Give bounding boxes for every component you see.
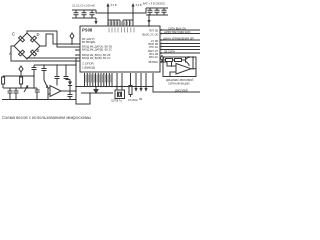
svg-text:Схема весов с использованием м: Схема весов с использованием микросхемы	[2, 115, 91, 120]
diode D1	[24, 86, 28, 93]
transistor Q3	[186, 57, 190, 65]
svg-text:ВХ ВХОДЫ: ВХ ВХОДЫ	[82, 40, 96, 44]
bus junction dots	[84, 86, 147, 87]
crystal leads	[117, 73, 122, 90]
capacitor C10 on x57	[55, 65, 60, 86]
wire bridge bottom vertex to IC pin	[27, 58, 80, 59]
resistor R5	[166, 59, 173, 62]
svg-text:32768 Гц: 32768 Гц	[111, 99, 122, 103]
node on wire y44	[71, 43, 73, 45]
strain gauge R-B	[31, 50, 37, 56]
op-amp output	[61, 90, 76, 92]
diode D2	[69, 80, 71, 82]
right output wire 3	[161, 39, 200, 41]
capacitor C3	[90, 10, 95, 18]
op-amp U3	[50, 86, 61, 97]
IC U1 body	[80, 26, 160, 72]
svg-text:ВХ2 2С: ВХ2 2С	[149, 55, 158, 59]
svg-text:ШИНА УПРАВЛЕНИЯ SPI: ШИНА УПРАВЛЕНИЯ SPI	[163, 36, 194, 40]
display wire	[153, 73, 200, 92]
right output wire 4	[161, 43, 200, 45]
svg-text:PS08: PS08	[82, 28, 93, 33]
op-amp U2	[176, 64, 191, 75]
ground bus upper	[76, 86, 153, 88]
svg-text:B: B	[37, 48, 40, 53]
top pin bus 1	[108, 20, 120, 26]
bottom pin names	[86, 75, 112, 83]
ground arrow	[95, 87, 97, 90]
capacitor C11 on x66	[64, 65, 71, 80]
net arrow pin 3	[140, 73, 142, 88]
net arrow pin 2	[135, 73, 137, 88]
svg-text:C: C	[12, 32, 15, 37]
net flag diamond 2	[19, 66, 23, 76]
op-amp inputs	[48, 88, 50, 100]
svg-text:ЦИФР ВЫХОДЫ ЖКИ: ЦИФР ВЫХОДЫ ЖКИ	[164, 30, 191, 34]
svg-text:С1,С2,С3 х 100 нФ: С1,С2,С3 х 100 нФ	[72, 4, 95, 8]
svg-text:С (ОПОР): С (ОПОР)	[82, 62, 94, 66]
ground jog to bus	[76, 93, 90, 104]
collector feedback line	[189, 57, 193, 69]
svg-text:3,3 В: 3,3 В	[136, 3, 142, 7]
capacitor bank rails	[72, 10, 96, 18]
net arrow on wire	[160, 56, 164, 63]
svg-text:10 МОм: 10 МОм	[128, 98, 138, 102]
power arrow VDD1	[107, 6, 109, 20]
svg-text:3,3 В: 3,3 В	[111, 3, 117, 7]
wire cap bank to supply line	[96, 10, 133, 13]
battery cap rails	[146, 8, 168, 15]
battery minus to IC top	[148, 15, 150, 26]
capacitor C5	[155, 8, 160, 15]
net flag diamond near IC	[70, 33, 74, 44]
wire y88	[3, 87, 37, 89]
top pin numbers	[109, 22, 132, 25]
capacitor C4	[148, 8, 153, 15]
capacitor C7	[8, 88, 13, 100]
emitter wire	[188, 65, 190, 67]
svg-text:СИГНАЛИЗАЦИИ: СИГНАЛИЗАЦИИ	[168, 82, 189, 86]
svg-text:ДИНАМИК ЗВУКОВОЙ: ДИНАМИК ЗВУКОВОЙ	[166, 78, 193, 82]
right output wire 1	[161, 29, 200, 31]
left rail low	[3, 75, 34, 77]
right output wire 7	[161, 52, 200, 54]
svg-text:ПИТ 2В: ПИТ 2В	[149, 29, 158, 33]
wire bridge top vertex to IC pin	[27, 31, 80, 47]
strain gauge R-D	[31, 36, 37, 42]
ground bus lower	[81, 92, 113, 94]
strain gauge R-C	[19, 36, 25, 42]
resistor R7	[175, 59, 182, 62]
wire bridge right vertex to IC pin	[40, 34, 80, 46]
cap on x34 drop	[32, 65, 37, 88]
resistor R2	[20, 77, 23, 84]
buzzer driver box	[163, 57, 196, 77]
net arrow pin 4	[145, 73, 147, 88]
capacitor C6	[162, 8, 167, 15]
svg-text:ЗВ ВЫХ: ЗВ ВЫХ	[148, 60, 158, 64]
capacitor C2	[82, 10, 87, 18]
right output wire 6	[161, 49, 200, 51]
svg-text:1 (ВЫВОД): 1 (ВЫВОД)	[82, 66, 95, 70]
IC bottom pin stubs	[85, 73, 113, 87]
right output wire 2	[161, 33, 200, 35]
svg-text:ЗВ СИГН: ЗВ СИГН	[164, 49, 175, 53]
op-amp lower input	[170, 72, 176, 77]
op-amp output	[191, 68, 196, 70]
capacitor C1	[74, 10, 79, 18]
wire IC to buzzer box	[161, 61, 167, 63]
bottom ground rail	[2, 99, 76, 101]
svg-text:ВХОД МК_ДАТ(В), ВХ 2С: ВХОД МК_ДАТ(В), ВХ 2С	[82, 48, 112, 52]
svg-text:БАТ + 3 В CR2032: БАТ + 3 В CR2032	[143, 2, 165, 6]
svg-text:D: D	[37, 32, 40, 37]
ground arrow below cap bank	[95, 18, 97, 21]
long vertical x76	[75, 58, 77, 100]
op-amp input wiring	[167, 62, 176, 67]
IC left stub pins from long vertical	[76, 50, 80, 55]
resistor R6 lead	[130, 73, 132, 86]
power arrow VDD2	[132, 6, 134, 20]
strain gauge R-A	[19, 50, 25, 56]
svg-text:ВХОД МК_ВХ(В), ВХ 2С: ВХОД МК_ВХ(В), ВХ 2С	[82, 56, 111, 60]
left rail mid	[34, 64, 76, 66]
transistor Q2 drop	[42, 65, 48, 88]
wire bridge left vertex down	[11, 46, 80, 61]
capacitor C9	[35, 88, 40, 100]
svg-text:СИГН ВЫХ ОК: СИГН ВЫХ ОК	[168, 26, 186, 30]
wire top row	[164, 59, 186, 61]
svg-text:ЗВ: ЗВ	[139, 98, 142, 101]
svg-text:ДИСПЛЕЙ: ДИСПЛЕЙ	[175, 88, 188, 92]
resistor R6	[129, 86, 132, 95]
right output wire 5	[161, 46, 200, 48]
resistor R1	[2, 77, 5, 84]
capacitor C12	[68, 91, 73, 100]
capacitor C8	[14, 88, 19, 100]
crystal Q1	[115, 90, 125, 99]
svg-text:ВЫХ1 2С ОК: ВЫХ1 2С ОК	[143, 33, 159, 37]
svg-text:УПР 2Н: УПР 2Н	[149, 45, 158, 49]
load-cell bridge outline	[14, 33, 40, 59]
top pin names inside IC	[109, 28, 135, 33]
supply line to battery rail	[133, 8, 146, 13]
top pin bus 2	[123, 20, 133, 26]
